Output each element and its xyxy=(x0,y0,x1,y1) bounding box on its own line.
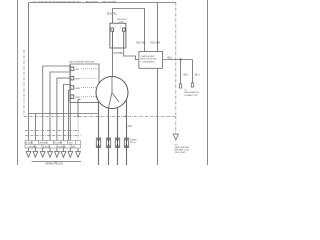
wire coil-2 to igniter xyxy=(124,48,139,60)
wire sensor lead 3 (nested) xyxy=(57,78,70,140)
wire igniter ground drop xyxy=(157,68,159,165)
svg-text:TACHOMETER: TACHOMETER xyxy=(175,146,190,149)
wire BLU output xyxy=(163,59,193,61)
svg-text:WHT/BLU: WHT/BLU xyxy=(114,52,125,55)
svg-text:BLU: BLU xyxy=(184,75,189,77)
label WHT/BLU xyxy=(114,52,125,55)
sensor face continuation down xyxy=(69,64,71,141)
dash-dot firewall box xyxy=(24,50,176,136)
wire high tension cord 3 xyxy=(117,107,119,165)
svg-text:BLU: BLU xyxy=(168,56,173,59)
ignition coil T1 xyxy=(110,19,127,48)
wire left long drop xyxy=(28,3,30,141)
wire high tension cord 2 xyxy=(108,108,110,165)
svg-text:PLUG: PLUG xyxy=(130,142,136,144)
left page border xyxy=(17,0,19,165)
wire to tach connector 1 xyxy=(180,60,182,85)
spark plug arrows xyxy=(26,152,80,158)
svg-text:GRN: GRN xyxy=(75,88,80,90)
svg-text:ORN: ORN xyxy=(75,97,80,99)
connector strip xyxy=(25,141,81,149)
svg-text:BLK/RED: BLK/RED xyxy=(25,143,34,145)
wire bus A top xyxy=(29,2,176,4)
svg-text:CONNECTOR: CONNECTOR xyxy=(184,95,198,97)
svg-text:24A: 24A xyxy=(128,125,133,128)
svg-text:WHT/BLU: WHT/BLU xyxy=(29,146,38,148)
wire B coil feed xyxy=(113,9,145,52)
svg-text:BLK/YEL: BLK/YEL xyxy=(43,146,51,148)
label BLK/YEL xyxy=(107,13,117,16)
svg-text:IGNITER UNIT: IGNITER UNIT xyxy=(141,56,156,58)
svg-text:BLU: BLU xyxy=(195,75,200,77)
arrow to ecu xyxy=(173,134,178,140)
plug wire color labels xyxy=(25,143,76,149)
wire sensor lead 2 (nested) xyxy=(50,72,70,141)
svg-text:SPARK PLUGS: SPARK PLUGS xyxy=(46,163,64,165)
wire high tension cord 1 xyxy=(98,102,100,166)
wire sensor lead 4 (nested) xyxy=(63,85,70,141)
svg-text:BLK/GRN: BLK/GRN xyxy=(54,143,63,145)
junction on cord 4 xyxy=(125,115,127,117)
label to tachometer connector xyxy=(184,90,199,97)
wire high tension cord 4 xyxy=(126,100,128,165)
labels above igniter xyxy=(137,43,161,45)
svg-text:TACHOMETER: TACHOMETER xyxy=(184,91,199,94)
solid lower horizontal xyxy=(29,113,99,115)
igniter unit U1 xyxy=(139,52,163,69)
wire sensor lead 5 (nested) xyxy=(69,90,71,141)
svg-text:GRN/BLU: GRN/BLU xyxy=(39,143,48,145)
tachometer sensor label xyxy=(69,61,94,64)
label 24A xyxy=(128,125,138,144)
right page border xyxy=(207,0,209,165)
svg-text:WHT: WHT xyxy=(75,79,81,81)
spark plugs bracket xyxy=(32,161,82,163)
strip wires continue xyxy=(29,148,79,152)
wire to tach connector 2 xyxy=(192,60,194,84)
wire dash-dot drop to ECU arrow xyxy=(175,3,177,117)
sensor housing xyxy=(70,64,99,83)
wire coil to distributor xyxy=(112,48,114,77)
wire from lower bus xyxy=(34,114,36,141)
svg-text:GRN: GRN xyxy=(68,143,73,145)
svg-text:BLU/RED: BLU/RED xyxy=(58,146,67,148)
dash wire to ecu arrow xyxy=(175,117,177,135)
svg-text:CONDENSER): CONDENSER) xyxy=(141,61,155,63)
title text on top edge xyxy=(33,0,116,4)
svg-text:COIL: COIL xyxy=(119,22,125,24)
svg-text:TL IGNITION SYSTEM (PGM-FI) —: TL IGNITION SYSTEM (PGM-FI) — BLK/YEL · … xyxy=(33,0,116,4)
distributor circle xyxy=(96,77,128,109)
wire sensor lead 1 (nested) xyxy=(43,66,70,141)
wire junction drop to igniter xyxy=(157,3,159,52)
junction xyxy=(180,58,182,60)
svg-text:BLK/YEL: BLK/YEL xyxy=(107,13,117,16)
dotted sensor leads xyxy=(81,69,99,97)
svg-text:(BUILT-IN NOISE: (BUILT-IN NOISE xyxy=(141,59,158,61)
inline connectors xyxy=(96,138,128,148)
svg-text:YEL/GRN: YEL/GRN xyxy=(150,43,160,45)
svg-text:TROL UNIT): TROL UNIT) xyxy=(175,152,187,154)
svg-text:TACHOMETER SENSOR: TACHOMETER SENSOR xyxy=(69,61,94,64)
rotor lines xyxy=(111,77,113,93)
svg-text:SPARK: SPARK xyxy=(130,139,137,142)
sensor terminals xyxy=(70,67,74,98)
svg-text:BLK/YEL: BLK/YEL xyxy=(137,43,147,45)
